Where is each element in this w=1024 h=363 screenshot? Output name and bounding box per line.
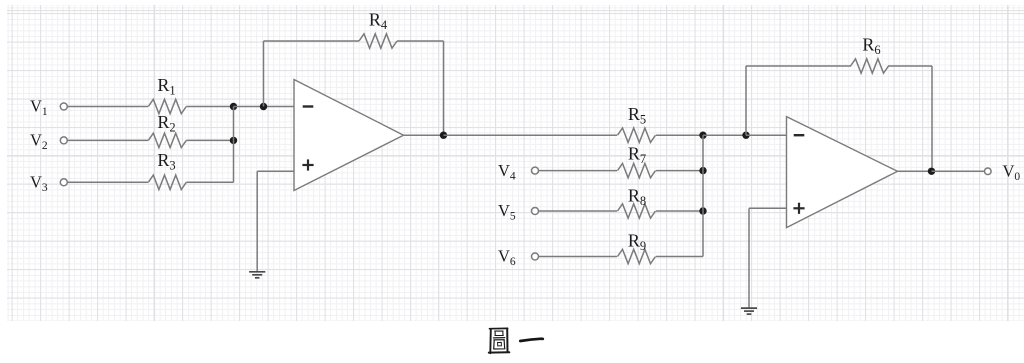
svg-text:R4: R4	[369, 10, 388, 33]
wire	[931, 66, 933, 171]
wire	[539, 210, 618, 212]
wire	[67, 139, 148, 141]
wire	[444, 134, 618, 136]
junction	[230, 103, 237, 110]
junction	[928, 168, 935, 175]
svg-text:V1: V1	[30, 97, 48, 119]
junction	[440, 132, 447, 139]
terminal V0	[985, 168, 992, 175]
terminal V1	[60, 103, 67, 110]
wire	[898, 170, 933, 172]
resistor R9	[618, 249, 656, 263]
wire	[397, 40, 444, 42]
resistor R7	[618, 163, 656, 177]
terminal V4	[532, 167, 539, 174]
resistor R4	[359, 34, 397, 48]
wire bus	[233, 107, 235, 183]
svg-text:V2: V2	[30, 131, 48, 153]
svg-text:V6: V6	[498, 247, 516, 269]
wire	[404, 134, 444, 136]
wire	[746, 65, 851, 67]
ground	[741, 307, 757, 309]
terminal V3	[60, 179, 67, 186]
resistor R8	[618, 204, 656, 218]
junction	[699, 132, 706, 139]
wire	[656, 134, 703, 136]
wire	[746, 134, 787, 136]
terminal V2	[60, 137, 67, 144]
wire bus	[702, 135, 704, 256]
svg-text:R1: R1	[157, 75, 175, 98]
junction node B	[742, 132, 749, 139]
svg-text:V5: V5	[498, 201, 516, 223]
op-amp U1	[294, 80, 404, 191]
resistor R5	[618, 128, 656, 142]
wire	[234, 106, 295, 108]
junction	[699, 207, 706, 214]
wire	[67, 106, 148, 108]
ground	[249, 271, 265, 273]
junction node A	[260, 103, 267, 110]
wire	[263, 41, 265, 107]
resistor R3	[148, 175, 186, 189]
wire	[257, 170, 294, 172]
svg-text:V3: V3	[30, 173, 48, 195]
svg-text:R5: R5	[628, 104, 646, 127]
wire	[186, 181, 233, 183]
svg-text:R6: R6	[862, 35, 880, 58]
wire	[256, 171, 258, 271]
wire	[539, 256, 618, 258]
junction	[230, 137, 237, 144]
svg-text:R8: R8	[628, 186, 646, 209]
junction	[699, 167, 706, 174]
svg-text:R9: R9	[628, 231, 646, 254]
wire	[749, 207, 787, 209]
wire	[186, 106, 233, 108]
wire	[264, 40, 360, 42]
terminal V6	[532, 253, 539, 260]
op-amp U2	[787, 117, 898, 228]
wire	[888, 65, 932, 67]
wire	[932, 170, 985, 172]
resistor R2	[148, 133, 186, 147]
wire	[67, 181, 148, 183]
caption figure label 圖	[489, 329, 492, 353]
svg-text:R2: R2	[157, 112, 175, 135]
wire	[748, 208, 750, 308]
wire	[656, 210, 703, 212]
resistor R6	[851, 59, 889, 73]
wire	[656, 256, 703, 258]
resistor R1	[148, 99, 186, 113]
svg-text:V4: V4	[498, 161, 516, 183]
wire	[656, 170, 703, 172]
wire	[745, 66, 747, 135]
wire	[539, 170, 618, 172]
svg-text:R3: R3	[157, 150, 175, 173]
terminal V5	[532, 208, 539, 215]
wire	[703, 134, 746, 136]
svg-text:V0: V0	[1003, 162, 1021, 184]
svg-text:R7: R7	[628, 144, 646, 167]
caption figure label 一	[520, 339, 543, 341]
wire	[186, 139, 233, 141]
wire	[443, 41, 445, 135]
